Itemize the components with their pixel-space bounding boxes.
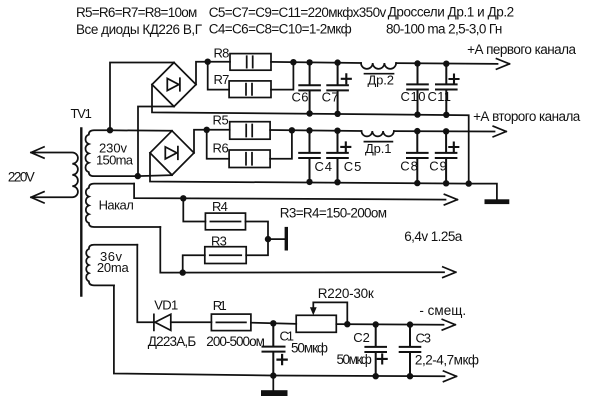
arrow minus bias output — [442, 319, 455, 330]
junction winding1 top / bridge inputs node — [107, 127, 113, 133]
wire pot output rail minus bias — [336, 323, 443, 326]
junction C10 top — [414, 60, 420, 66]
junction C5 bottom — [334, 179, 340, 185]
wire R6 left branch — [207, 130, 229, 159]
svg-text:VD1: VD1 — [154, 297, 178, 312]
svg-text:200-500ом: 200-500ом — [206, 334, 265, 349]
junction R8/R7 left node — [205, 59, 211, 65]
resistor R8 — [230, 54, 271, 71]
bridge rectifier 1 — [152, 63, 196, 107]
svg-text:50мкф: 50мкф — [337, 352, 372, 367]
svg-text:Все диоды КД226 В,Г: Все диоды КД226 В,Г — [76, 22, 203, 37]
arrow 220V top terminal — [31, 147, 44, 158]
wire filament bottom rail — [160, 227, 444, 273]
junction C8 top — [414, 128, 420, 134]
resistor R1 — [211, 314, 251, 331]
junction C4 bottom — [306, 179, 312, 185]
junction R5/R6 right node — [289, 127, 295, 133]
plus sign C1 — [278, 355, 287, 364]
junction C3 bottom — [407, 373, 413, 379]
svg-text:+А первого канала: +А первого канала — [467, 42, 576, 57]
svg-text:C3: C3 — [416, 331, 432, 346]
wire bridge2 right corner to R5/R6 node — [194, 130, 230, 153]
arrow 220V bottom terminal — [31, 192, 44, 203]
svg-text:C4: C4 — [315, 159, 333, 174]
svg-text:Др.1: Др.1 — [365, 141, 392, 156]
transformer TV1 primary winding 220V — [33, 153, 78, 198]
arrow +A first channel output — [497, 59, 510, 70]
junction C9 bottom — [443, 180, 449, 186]
svg-text:R7: R7 — [214, 72, 230, 87]
ground symbol bottom — [261, 390, 288, 396]
junction pot wiper node — [344, 321, 350, 327]
svg-text:R4: R4 — [212, 199, 228, 214]
junction C4 top — [306, 127, 312, 133]
winding 36v 20ma secondary — [86, 245, 137, 286]
resistor R4 — [205, 213, 245, 230]
junction filament top / R4 branch — [180, 195, 186, 201]
svg-text:Дроссели Др.1 и Др.2: Дроссели Др.1 и Др.2 — [388, 5, 515, 20]
capacitor C3 — [400, 325, 421, 377]
svg-text:Д223А,Б: Д223А,Б — [148, 334, 197, 349]
junction C8 bottom — [414, 180, 420, 186]
svg-text:C8: C8 — [400, 159, 418, 174]
resistor R7 — [229, 81, 271, 98]
junction C3 top — [407, 321, 413, 327]
svg-text:C5: C5 — [344, 159, 362, 174]
capacitor C8 — [407, 131, 428, 183]
svg-text:150ma: 150ma — [96, 153, 134, 168]
capacitor C11 polarized — [436, 64, 457, 115]
svg-text:Др.2: Др.2 — [368, 72, 395, 87]
svg-text:C9: C9 — [429, 159, 447, 174]
ground symbol channel rails — [485, 199, 510, 204]
junction C2 top — [373, 321, 379, 327]
junction R3/R4 right node — [265, 236, 271, 242]
wire R7 right branch — [271, 62, 293, 89]
capacitor C1 polarized — [263, 324, 285, 376]
junction C1 bottom / ground — [270, 372, 276, 378]
diode symbol inside bridge 2 — [165, 147, 178, 160]
svg-text:6,4v 1.25a: 6,4v 1.25a — [404, 229, 463, 244]
svg-text:R220-30к: R220-30к — [318, 286, 374, 301]
capacitor C2 polarized — [365, 325, 386, 377]
wire C1 node to ground — [272, 376, 274, 390]
junction ground rail / minus rail 1 — [466, 180, 472, 186]
junction C6 top — [306, 59, 312, 65]
choke Dr.2 — [361, 63, 396, 74]
svg-text:220V: 220V — [8, 170, 35, 185]
wire node to chassis bar — [268, 238, 285, 240]
svg-text:R5: R5 — [213, 112, 229, 127]
svg-text:R3: R3 — [211, 234, 227, 249]
wire plus rail channel 1 — [271, 62, 498, 64]
plus sign C2 — [378, 354, 387, 363]
svg-text:2,2-4,7мкф: 2,2-4,7мкф — [415, 353, 479, 368]
junction winding1 bottom AC node — [135, 173, 141, 179]
junction filament bottom / R3 branch — [180, 269, 186, 275]
wire R3 right branch — [246, 239, 268, 255]
svg-text:TV1: TV1 — [71, 106, 92, 121]
arrow filament bottom output — [443, 267, 456, 278]
junction C7 top — [334, 59, 340, 65]
junction C6 bottom — [306, 110, 312, 116]
svg-text:20ma: 20ma — [97, 260, 130, 275]
wire plus rail channel 2 — [270, 130, 494, 132]
resistor R5 — [230, 122, 270, 140]
wire R3 left branch — [183, 255, 205, 272]
svg-text:C11: C11 — [428, 89, 452, 104]
arrow +A second channel output — [493, 126, 506, 137]
choke Dr.1 — [362, 131, 394, 142]
svg-text:50мкф: 50мкф — [291, 341, 328, 356]
wire bridge1 right corner to R8/R7 node — [196, 62, 230, 85]
junction C11 top — [443, 61, 449, 67]
wire R1 to potentiometer — [251, 323, 296, 324]
junction R5/R6 left node — [204, 127, 210, 133]
capacitor C9 polarized — [436, 131, 457, 183]
svg-text:R6: R6 — [213, 141, 229, 156]
svg-text:- смещ.: - смещ. — [419, 303, 466, 318]
svg-text:R5=R6=R7=R8=10ом: R5=R6=R7=R8=10ом — [76, 5, 197, 20]
wire R7 left branch — [208, 62, 229, 90]
wire AC node to bridge2 bottom corner — [138, 175, 172, 176]
potentiometer R220-30k body — [296, 315, 336, 332]
chassis bar symbol — [285, 227, 288, 251]
junction R8/R7 right node — [290, 59, 296, 65]
winding Накал filament secondary — [86, 184, 160, 227]
svg-text:С5=С7=С9=С11=220мкфх350v: С5=С7=С9=С11=220мкфх350v — [209, 5, 387, 20]
wire bottom rail 36v return — [114, 285, 445, 376]
wire R4 right branch — [246, 222, 269, 240]
resistor R3 — [205, 247, 246, 264]
capacitor C10 — [407, 64, 428, 115]
wire R4 left branch — [183, 198, 205, 221]
capacitor C5 polarized — [327, 131, 348, 183]
winding 230v 150ma secondary — [86, 130, 138, 176]
capacitor C7 polarized — [327, 63, 348, 114]
diode symbol inside bridge 1 — [167, 78, 180, 91]
plus sign C9 — [449, 143, 458, 152]
junction C9 top — [443, 128, 449, 134]
resistor R6 — [229, 150, 270, 168]
svg-text:C10: C10 — [401, 89, 426, 104]
wire winding top to bridge VD rect 1 top corner — [110, 63, 174, 131]
svg-text:С4=С6=С8=С10=1-2мкф: С4=С6=С8=С10=1-2мкф — [209, 22, 352, 37]
junction C7 bottom — [334, 111, 340, 117]
junction C2 bottom — [373, 373, 379, 379]
arrow filament top output — [444, 194, 457, 205]
transformer TV1 core — [80, 129, 82, 296]
diode VD1 — [154, 314, 171, 330]
wire R6 right branch — [270, 130, 292, 158]
wire bridge1 left corner down to minus rail 1 — [152, 85, 469, 184]
junction R1 out / C1 top — [270, 320, 276, 326]
capacitor C6 — [299, 62, 320, 113]
wire 36v top to diode VD1 — [137, 245, 154, 322]
capacitor C4 — [299, 131, 320, 182]
svg-text:R3=R4=150-200ом: R3=R4=150-200ом — [280, 206, 387, 221]
plus sign C5 — [341, 142, 350, 151]
junction C11 bottom — [443, 112, 449, 118]
svg-text:C6: C6 — [292, 89, 309, 104]
svg-text:C7: C7 — [322, 89, 339, 104]
plus sign C7 — [342, 74, 351, 83]
wire filament top rail 6.4v — [134, 184, 445, 200]
wire bridge2 left corner down to ground rail — [150, 153, 497, 199]
junction C5 top — [334, 128, 340, 134]
plus sign C11 — [450, 75, 459, 84]
svg-text:R8: R8 — [214, 46, 230, 61]
potentiometer wiper arm — [313, 302, 347, 324]
svg-text:+А второго канала: +А второго канала — [473, 109, 581, 124]
wire winding top to bridge 2 top corner — [110, 129, 172, 132]
svg-text:80-100 ma 2,5-3,0 Гн: 80-100 ma 2,5-3,0 Гн — [386, 22, 502, 37]
svg-text:R1: R1 — [213, 298, 227, 313]
wire VD1 to R1 — [171, 321, 212, 323]
junction C10 bottom — [414, 111, 420, 117]
svg-text:C2: C2 — [353, 330, 370, 345]
arrow bottom rail output — [444, 371, 457, 382]
wire bridge1 bottom corner to AC node — [138, 107, 174, 177]
bridge rectifier 2 — [150, 131, 194, 175]
svg-text:Накал: Накал — [99, 197, 134, 212]
